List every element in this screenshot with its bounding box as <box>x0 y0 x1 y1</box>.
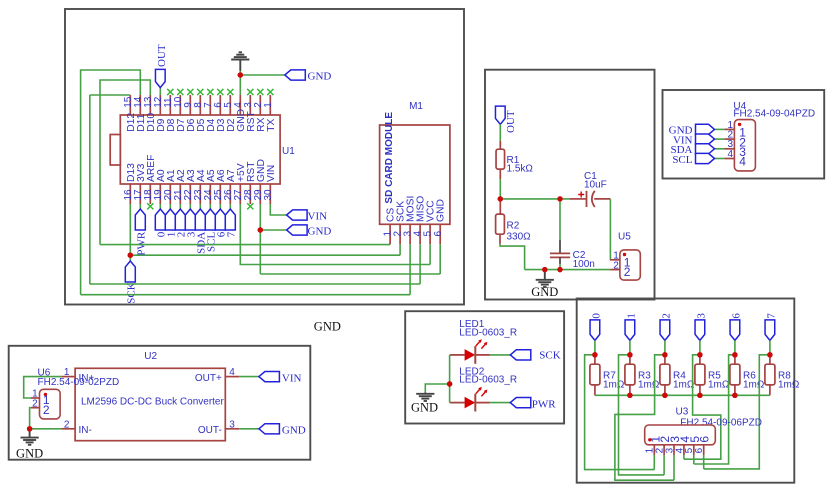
U3 pin 6 <box>703 445 705 455</box>
svg-text:GND: GND <box>282 425 306 437</box>
junction D13 SCK <box>128 253 133 258</box>
diode LED2 <box>450 402 464 404</box>
wire VIN pin30 <box>270 204 286 215</box>
U4 pin 1 <box>724 128 734 130</box>
U5 pin1 mark <box>623 253 626 256</box>
svg-text:SD CARD MODULE: SD CARD MODULE <box>384 112 395 204</box>
wire U3 pin 1 drop <box>653 455 655 470</box>
wire C1 to U5 pin1 <box>609 199 611 260</box>
resistor R6 <box>734 355 736 364</box>
connector U5 body <box>620 250 640 280</box>
svg-text:100n: 100n <box>573 259 595 270</box>
wire OUT to D9 <box>159 88 161 95</box>
wire LED1 to SCK flag <box>490 354 510 356</box>
flag net 1 <box>625 320 635 341</box>
U2 pin 1 IN+ <box>61 376 75 378</box>
svg-text:330Ω: 330Ω <box>507 232 532 243</box>
junction dots top layer <box>238 72 243 77</box>
U3 pin 1 <box>653 445 655 455</box>
flag VIN U4 <box>696 134 715 144</box>
wire U3 pin 3 drop <box>673 455 675 480</box>
wire M1 SCK elbow <box>399 244 401 255</box>
wire M1 MISO elbow <box>419 244 421 284</box>
wire OUT+ to VIN flag <box>239 376 259 378</box>
wire U3 pin 5 drop <box>693 455 695 464</box>
svg-text:GND: GND <box>308 71 332 83</box>
wire GND pin29 down <box>259 204 261 274</box>
wire U4 pin 4 <box>715 158 725 160</box>
wire to LED1 <box>450 354 451 356</box>
junction bus R3 <box>627 393 632 398</box>
svg-text:IN-: IN- <box>79 425 92 436</box>
wire GND to M1 GND <box>260 273 440 275</box>
resistor R8 <box>769 355 771 364</box>
flag GND U2 <box>259 424 280 434</box>
svg-text:2: 2 <box>624 265 631 279</box>
svg-text:LED-0603_R: LED-0603_R <box>459 328 517 339</box>
flag net 3 <box>695 320 705 341</box>
flag SDA U4 <box>696 144 715 154</box>
flag VIN U2 <box>259 372 280 382</box>
flag net 2 <box>660 320 670 341</box>
junction bus R4 <box>662 393 667 398</box>
junction gnd symbol <box>542 267 547 272</box>
resistor R7 <box>594 355 596 364</box>
frame LED block <box>405 311 564 423</box>
no-connect X marks top pins <box>167 89 173 95</box>
wire U3 pin 2 drop <box>663 455 665 475</box>
M1 pins 1-6 <box>389 224 391 244</box>
svg-text:GND: GND <box>411 400 438 414</box>
flag PWR LED <box>510 398 531 408</box>
flag SCK bottom left <box>125 261 135 282</box>
junction 3 <box>697 352 702 357</box>
svg-text:3: 3 <box>696 313 708 319</box>
svg-text:GND: GND <box>314 319 341 333</box>
wire M1 MOSI elbow <box>409 244 411 295</box>
svg-text:U2: U2 <box>144 351 157 362</box>
flag SCK LED <box>510 350 531 360</box>
svg-text:0: 0 <box>591 313 603 319</box>
converter U2 body <box>75 368 225 440</box>
svg-text:LM2596 DC-DC Buck Converter: LM2596 DC-DC Buck Converter <box>81 397 224 408</box>
wire flag 1 down <box>629 340 631 354</box>
svg-text:1mΩ: 1mΩ <box>673 379 695 390</box>
junction C2 top <box>557 196 562 201</box>
svg-text:2: 2 <box>32 398 38 409</box>
svg-text:4: 4 <box>229 367 235 378</box>
svg-text:SCL: SCL <box>672 154 692 166</box>
U1 bottom pins 16-30 <box>129 184 131 204</box>
svg-text:1mΩ: 1mΩ <box>778 379 800 390</box>
svg-text:1: 1 <box>263 102 274 108</box>
svg-text:U1: U1 <box>282 146 295 157</box>
svg-text:U3: U3 <box>676 407 689 418</box>
capacitor C1 <box>570 198 586 200</box>
U3 pin 2 <box>663 445 665 455</box>
wire M1 VCC elbow <box>429 244 431 264</box>
U3 pin 3 <box>673 445 675 455</box>
svg-text:1mΩ: 1mΩ <box>638 379 660 390</box>
wire +5V to M1 VCC <box>240 204 430 265</box>
svg-text:30: 30 <box>263 189 274 201</box>
ground earth U2 <box>29 429 31 437</box>
IC U1 MCU body <box>120 115 280 184</box>
svg-text:VIN: VIN <box>266 165 277 182</box>
wire net2 to U3 pin3 <box>615 355 674 480</box>
U4 pin1 mark <box>738 123 741 126</box>
wire M1 GND elbow <box>439 244 441 274</box>
svg-text:4: 4 <box>727 149 733 160</box>
U2 pin 4 OUT+ <box>225 376 239 378</box>
capacitor C2 <box>559 199 561 240</box>
svg-text:6: 6 <box>433 231 444 237</box>
svg-text:FH2.54-09-04PZD: FH2.54-09-04PZD <box>733 109 815 120</box>
svg-text:7: 7 <box>226 231 238 237</box>
wire MOSI net <box>81 294 411 296</box>
svg-text:1.5kΩ: 1.5kΩ <box>507 164 534 175</box>
svg-text:6: 6 <box>694 447 705 453</box>
junction R1 R2 <box>498 196 503 201</box>
resistor R5 <box>699 355 701 364</box>
wire D10 to CS net <box>100 80 150 245</box>
junction 1 <box>627 352 632 357</box>
svg-text:OUT+: OUT+ <box>195 373 222 384</box>
svg-text:VIN: VIN <box>282 372 302 384</box>
junction U2 gnd <box>27 426 32 431</box>
wire flag 6 down <box>734 340 736 354</box>
wire U6 pin1 to IN+ <box>24 377 62 398</box>
junction GND pin29 <box>258 227 263 232</box>
U5 pin 1 <box>610 259 620 261</box>
wire U6 pin2 to IN- <box>30 408 31 429</box>
resistor R1 <box>499 141 501 149</box>
svg-text:OUT: OUT <box>156 44 168 67</box>
svg-text:2: 2 <box>661 313 673 319</box>
wire flag 2 down <box>664 340 666 354</box>
module M1 body <box>380 125 450 224</box>
connector U3 body <box>645 425 716 445</box>
U4 pin 4 <box>724 158 734 160</box>
flag net 7 <box>765 320 775 341</box>
U2 pin 2 IN- <box>61 428 75 430</box>
junction bus R6 <box>732 393 737 398</box>
wire net3 to U3 pin4 <box>684 355 721 459</box>
wire led bus <box>449 355 451 403</box>
wire SCK net to M1 <box>130 254 400 256</box>
wire to LED2 <box>450 402 451 404</box>
flag VIN mid <box>287 210 308 220</box>
U4 pin 3 <box>724 148 734 150</box>
junction C2 bottom <box>557 267 562 272</box>
svg-text:3: 3 <box>229 419 235 430</box>
no-connect X marks pins 18 28 <box>147 203 153 209</box>
ground earth top <box>239 71 241 76</box>
svg-text:GND: GND <box>16 447 43 461</box>
wire D12 to MISO net <box>90 94 131 96</box>
wire IN- to gnd <box>30 428 62 430</box>
svg-text:1mΩ: 1mΩ <box>603 379 625 390</box>
svg-text:SCK: SCK <box>539 350 560 362</box>
wire flag 3 down <box>699 340 701 354</box>
svg-text:VIN: VIN <box>308 211 328 223</box>
svg-text:2: 2 <box>64 419 70 430</box>
svg-text:R2: R2 <box>507 221 520 232</box>
ground earth LED <box>424 391 426 394</box>
svg-text:1mΩ: 1mΩ <box>708 379 730 390</box>
wire R1 to junction <box>499 179 501 199</box>
svg-text:M1: M1 <box>409 101 423 112</box>
svg-text:OUT: OUT <box>505 110 517 133</box>
svg-text:LED-0603_R: LED-0603_R <box>459 375 517 386</box>
svg-text:U5: U5 <box>618 231 631 242</box>
wire R2 to gnd row <box>500 244 525 270</box>
U6 pin 1 <box>31 397 40 399</box>
wire CS net <box>100 244 390 246</box>
U3 pin 4 <box>683 445 685 455</box>
svg-text:1: 1 <box>626 313 638 319</box>
wire U4 pin 2 <box>715 138 725 140</box>
svg-text:FH2.54-09-02PZD: FH2.54-09-02PZD <box>38 377 120 388</box>
wire net6 to U3 pin5 <box>694 355 735 464</box>
svg-text:OUT-: OUT- <box>198 425 222 436</box>
junction top gnd <box>238 72 243 77</box>
svg-text:PWR: PWR <box>136 231 148 256</box>
junction 6 <box>732 352 737 357</box>
junction bus R5 <box>697 393 702 398</box>
wire D11 to MOSI net <box>81 70 141 295</box>
connector U6 body <box>40 389 61 419</box>
U6 pin1 mark <box>44 393 47 396</box>
resistor R3 <box>629 355 631 364</box>
flag GND top <box>285 70 306 80</box>
U6 pin 2 <box>31 407 40 409</box>
svg-text:1mΩ: 1mΩ <box>743 379 765 390</box>
U1 top pins 15-1 <box>129 95 131 115</box>
U4 pin 2 <box>724 138 734 140</box>
wire shunt bus <box>595 394 770 396</box>
flag SCL U4 <box>696 153 715 163</box>
svg-text:TX: TX <box>266 119 277 132</box>
flag GND mid <box>287 225 308 235</box>
junction 2 <box>662 352 667 357</box>
svg-text:4: 4 <box>739 155 746 169</box>
ground earth mid <box>544 270 546 280</box>
flag GND U4 <box>696 124 715 134</box>
wire net7 to U3 pin6 <box>704 355 770 469</box>
wire U3 pin 4 drop <box>683 455 685 459</box>
flag OUT mid <box>495 106 505 124</box>
flag net 6 <box>730 320 740 341</box>
wire gnd row <box>525 269 611 271</box>
resistor R2 <box>499 199 501 214</box>
svg-text:6: 6 <box>731 313 743 319</box>
svg-text:GND: GND <box>308 226 332 238</box>
wire GND pin4 up <box>239 75 241 95</box>
wire led gnd <box>425 384 449 392</box>
svg-text:GND: GND <box>436 199 447 222</box>
wire net1 to U3 pin2 <box>619 355 665 475</box>
resistor R4 <box>664 355 666 364</box>
junction led gnd <box>447 381 452 386</box>
wire U3 pin 6 drop <box>703 455 705 469</box>
svg-text:PWR: PWR <box>532 398 557 410</box>
wire M1 CS elbow <box>389 243 391 245</box>
svg-text:6: 6 <box>698 436 712 443</box>
wire U4 pin 3 <box>715 148 725 150</box>
junction 0 <box>592 352 597 357</box>
svg-text:10uF: 10uF <box>584 180 607 191</box>
frame buck converter block <box>9 346 311 460</box>
svg-text:2: 2 <box>43 403 50 417</box>
wire U4 pin 1 <box>715 128 725 130</box>
flag OUT at D9 <box>155 69 165 87</box>
U5 pin 2 <box>610 269 620 271</box>
flag PWR at 3V3 <box>139 204 141 209</box>
U3 pin1 mark <box>648 438 651 441</box>
frame shunt resistor block <box>577 299 795 483</box>
wire LED2 to PWR flag <box>490 402 510 404</box>
svg-text:GND: GND <box>531 285 558 299</box>
U3 pin 5 <box>693 445 695 455</box>
wire net0 to U3 pin1 <box>585 355 655 470</box>
U1 left notch <box>110 135 120 166</box>
wire OUT- to GND flag <box>239 428 259 430</box>
diode LED1 <box>450 354 464 356</box>
U2 pin 3 OUT- <box>225 428 239 430</box>
svg-text:SCK: SCK <box>126 282 138 303</box>
wire flag 0 down <box>594 340 596 354</box>
frame main MCU block <box>65 9 464 305</box>
wire flag 7 down <box>769 340 771 354</box>
svg-text:7: 7 <box>766 313 778 319</box>
wire mid row <box>500 198 570 200</box>
junction 7 <box>767 352 772 357</box>
flag net 0 <box>590 320 600 341</box>
wire D13 down <box>129 204 131 261</box>
wire OUT to R1 <box>499 124 501 146</box>
wire MISO net <box>90 283 420 285</box>
wire GND flag mid <box>260 229 286 231</box>
connector U4 body <box>734 120 755 171</box>
frame I2C header block <box>663 90 825 179</box>
svg-text:2: 2 <box>613 260 619 271</box>
wire to GND flag top <box>240 74 284 76</box>
frame RC filter block <box>485 70 655 300</box>
flags A0-A7 nets <box>159 204 161 209</box>
